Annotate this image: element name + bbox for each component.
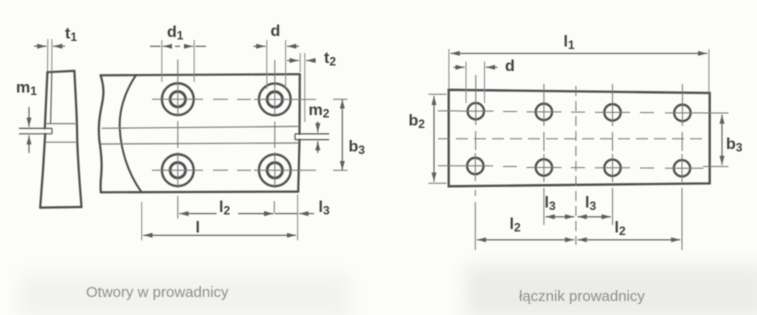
hole B1 (bottom-left)	[162, 154, 194, 186]
dimension m1	[28, 107, 30, 153]
top edge	[101, 74, 300, 75]
dimension l3 (left fig)	[258, 213, 314, 215]
dimension d (left fig)	[267, 40, 286, 89]
hole A2 (top-right)	[259, 84, 291, 116]
dimension l1	[451, 52, 708, 54]
svg-text:m1: m1	[16, 80, 37, 99]
dimension l2 (left fig)	[179, 213, 273, 215]
dimension t1	[34, 45, 65, 47]
l1 extension lines	[449, 49, 709, 92]
dimension l3 left (right fig)	[546, 216, 575, 218]
section arc	[120, 75, 142, 191]
svg-text:l3: l3	[319, 199, 330, 218]
centre lines column 2	[273, 60, 276, 213]
svg-text:d1: d1	[167, 24, 184, 43]
dimension l3 right (right fig)	[578, 216, 611, 218]
svg-text:m2: m2	[309, 102, 330, 121]
side strip groove lines	[45, 124, 77, 143]
side strip outline	[40, 71, 81, 208]
dimension l2 left (right fig)	[477, 239, 574, 241]
centre lines row 2	[152, 169, 316, 171]
side strip inner wall line	[51, 72, 52, 124]
svg-text:t2: t2	[324, 50, 336, 69]
front view outline	[99, 74, 300, 192]
svg-text:l2: l2	[219, 199, 230, 218]
svg-text:Otwory w prowadnicy: Otwory w prowadnicy	[86, 284, 229, 301]
hole A1 (top-left)	[162, 83, 194, 115]
centre lines row 1	[152, 98, 316, 100]
dimension b2	[429, 94, 447, 183]
svg-text:t1: t1	[65, 26, 77, 45]
dimension b3 (left fig)	[341, 99, 343, 170]
side strip recess (m1)	[19, 128, 52, 133]
svg-text:d: d	[271, 23, 281, 40]
bottom edge	[101, 191, 298, 194]
centre vertical dashed (right fig)	[575, 86, 577, 245]
right edge lower	[298, 140, 299, 192]
svg-text:b2: b2	[409, 113, 426, 132]
svg-text:l3: l3	[585, 195, 596, 214]
svg-text:l1: l1	[564, 34, 575, 53]
svg-text:l2: l2	[510, 216, 521, 235]
middle horizontal dashed line	[438, 138, 705, 140]
dimension b3 (right fig)	[703, 113, 729, 167]
holes right fig row1	[468, 103, 691, 121]
row centre lines (right fig) row1	[438, 111, 704, 113]
dimension m2	[317, 122, 319, 154]
background wash bottom	[465, 265, 757, 315]
right edge upper	[298, 74, 300, 134]
holes right fig row2	[467, 158, 690, 177]
dimension l (left fig)	[143, 234, 296, 236]
svg-text:d: d	[505, 58, 515, 75]
svg-text:l3: l3	[545, 195, 556, 214]
dimension d1	[162, 40, 194, 82]
hole B2 (bottom-right)	[259, 154, 291, 186]
svg-text:łącznik prowadnicy: łącznik prowadnicy	[519, 288, 645, 305]
column centre lines (right fig)	[475, 75, 682, 250]
centre lines column 1	[177, 60, 179, 219]
plate outline	[449, 90, 710, 187]
t1 extension lines	[48, 39, 52, 72]
extension lines bottom (left fig)	[142, 195, 298, 241]
svg-text:b3: b3	[349, 139, 366, 158]
front view groove lines	[101, 126, 300, 144]
dimension l2 right (right fig)	[578, 239, 681, 241]
break line	[99, 75, 104, 192]
b3 ticks (left fig)	[333, 99, 348, 170]
row centre lines (right fig) row2	[438, 166, 704, 169]
svg-text:l: l	[196, 220, 200, 237]
svg-text:l2: l2	[615, 220, 626, 239]
svg-text:b3: b3	[726, 136, 743, 155]
m2 recess on right edge	[295, 134, 329, 140]
dimension t2	[300, 53, 305, 122]
dimension d (right fig)	[466, 62, 485, 104]
